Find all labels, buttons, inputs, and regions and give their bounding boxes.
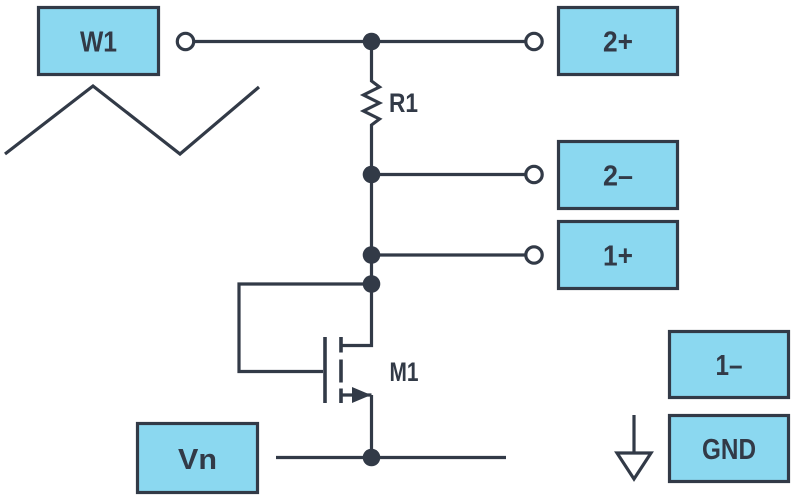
svg-text:R1: R1 [389, 88, 418, 118]
svg-text:M1: M1 [390, 357, 419, 387]
ground symbol [617, 415, 651, 479]
svg-text:1+: 1+ [603, 241, 633, 273]
node junction gate tie [363, 275, 381, 293]
source block W1 [39, 8, 159, 75]
source block Vn [138, 424, 258, 493]
svg-text:2+: 2+ [603, 27, 633, 59]
wire to 2- [372, 173, 525, 176]
terminal circle 2+ [526, 33, 542, 49]
scope block GND [670, 416, 789, 482]
node junction top [363, 33, 381, 51]
wire gate loop [239, 284, 372, 372]
scope block 1+ [559, 222, 678, 289]
wire vertical mid [370, 175, 373, 285]
scope block 1- [670, 332, 789, 398]
svg-text:Vn: Vn [178, 444, 217, 476]
terminal circle 1+ [526, 247, 542, 263]
wire to 1+ [372, 253, 525, 256]
transistor M1 [325, 337, 419, 403]
node junction bottom [363, 449, 381, 467]
svg-text:2–: 2– [603, 161, 633, 193]
wire top rail [195, 40, 525, 43]
node junction 2- [363, 166, 381, 184]
wire bottom rail [276, 456, 506, 459]
svg-text:1–: 1– [716, 350, 743, 382]
wire drain [341, 284, 372, 346]
resistor R1 [364, 42, 419, 176]
terminal circle W1 [177, 33, 193, 49]
scope block 2- [559, 142, 678, 209]
svg-text:GND: GND [702, 434, 756, 466]
svg-text:W1: W1 [80, 27, 117, 59]
node junction 1+ [363, 246, 381, 264]
terminal circle 2- [526, 166, 542, 182]
triangle waveform [5, 86, 259, 154]
scope block 2+ [559, 8, 678, 75]
wire source down [370, 395, 373, 458]
